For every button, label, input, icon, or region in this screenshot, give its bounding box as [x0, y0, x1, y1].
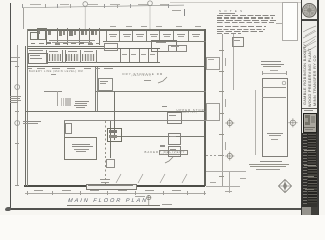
room labels row1: [109, 33, 117, 36]
notes paragraph 1: [217, 15, 276, 24]
survey target 1: [224, 117, 236, 129]
stair dim ticks: [56, 91, 59, 106]
revision box (white): [282, 2, 299, 41]
corridor marks row: [31, 43, 35, 45]
sheet border bottom: [10, 208, 302, 209]
stair boxes along right wall: [167, 112, 182, 124]
left dim ticks: [15, 65, 19, 68]
north arrow compass: [277, 178, 293, 194]
left wall outer: [24, 46, 27, 186]
notes heading: [219, 9, 243, 13]
stair text: [75, 101, 89, 102]
grid bubble A: [80, 0, 92, 32]
top dimension line: [22, 4, 185, 9]
seal: [302, 2, 317, 19]
left margin note: [10, 96, 22, 106]
right dim labels: [225, 58, 226, 66]
title scale note: [162, 204, 172, 205]
left top dim vertical: [22, 8, 25, 29]
right dim vertical 1: [221, 34, 224, 186]
target 1 leader: [206, 122, 224, 125]
bottom dimension line: [25, 192, 206, 195]
title underline: [67, 204, 160, 207]
dry storage label: [123, 72, 164, 76]
cluster corridor wall: [27, 45, 105, 48]
row2 bottom wall: [46, 62, 160, 63]
row2 mid labels: [122, 53, 127, 56]
left grid bubble 2: [12, 118, 23, 129]
detail plan rect: [262, 78, 288, 157]
vertical wall x96: [94, 67, 97, 111]
strip left border: [301, 0, 302, 215]
pencil check delivery: [164, 156, 174, 164]
strip project name rotated text: [303, 44, 307, 105]
mid small boxes under rooms: [104, 43, 118, 51]
vertical wall x110: [110, 121, 111, 158]
seal divider: [302, 19, 317, 21]
strip dark photo section: [302, 133, 317, 208]
vertical x64: [63, 121, 66, 159]
row2 labels: [29, 50, 43, 51]
strip small divider: [302, 107, 317, 110]
attached box right 2: [206, 103, 220, 121]
sheet border left: [10, 3, 11, 208]
sheet corner blob bottom-left: [5, 207, 11, 212]
top right small box: [232, 37, 244, 47]
survey target 2: [224, 150, 236, 162]
left lower note: [23, 121, 41, 122]
toilet cluster row2: [28, 50, 105, 65]
door marks below room B: [106, 159, 115, 168]
door swing ticks bottom: [110, 172, 200, 185]
room A lower left: [64, 137, 97, 160]
row2 left room: [28, 53, 48, 64]
bottom dim extension right: [206, 170, 246, 173]
detail inner line 1: [262, 86, 286, 89]
box above stairs: [98, 78, 113, 91]
grid bubble B: [145, 0, 157, 32]
detail target: [287, 117, 299, 129]
strip bottom section: [302, 207, 317, 215]
main corridor wall: [27, 66, 206, 67]
top dimension labels: [30, 4, 41, 5]
row2 mid partitions: [119, 49, 122, 62]
top dimension ticks: [21, 4, 24, 8]
small fixtures left of room A: [65, 123, 72, 134]
bottom dim labels: [34, 190, 43, 191]
faint wall y120.5: [64, 119, 206, 122]
column lines dashed: [104, 121, 107, 186]
notes paragraph 2: [217, 26, 267, 36]
detail inner text: [267, 133, 283, 134]
right dim vertical 2: [232, 34, 235, 90]
right dim ticks: [219, 49, 224, 52]
vertical wall x114: [114, 91, 115, 140]
strip right border: [317, 0, 318, 215]
left dimension line: [16, 45, 19, 186]
detail left dim: [254, 90, 257, 155]
left small marks upper: [11, 56, 20, 59]
ramp text: [100, 179, 110, 180]
approval scribble section: [302, 22, 317, 54]
detail inner line 2: [262, 96, 286, 99]
mid wall y91 left: [44, 90, 62, 93]
detail below text: [260, 161, 282, 162]
room A text: [72, 144, 90, 145]
row2 fixtures: [49, 54, 62, 60]
mid wall y111: [25, 111, 206, 112]
stair treads: [61, 98, 72, 107]
dock label box on bottom wall: [86, 184, 137, 190]
room partitions row1: [105, 31, 108, 42]
left grid bubble 1: [12, 82, 23, 93]
bakery delivery label: [145, 150, 186, 154]
detail header text: [261, 61, 285, 67]
right wall: [204, 29, 206, 186]
mid wall y91 right: [96, 90, 206, 93]
target 2 leader: [206, 154, 224, 157]
bakery line label: [29, 70, 83, 73]
strip photo frame: [303, 113, 317, 133]
equipment box B: [107, 128, 123, 143]
leader line to revision box: [276, 22, 282, 25]
upper storage label: [177, 108, 205, 112]
detail target leader: [287, 122, 293, 125]
detail dim line top: [262, 72, 286, 75]
wall y135.7: [110, 136, 204, 137]
detail corner circle: [280, 79, 289, 88]
bottom wall: [24, 185, 205, 187]
title flag: [144, 194, 154, 206]
attached box right 1: [206, 57, 220, 70]
row1 rooms bottom line: [103, 40, 206, 43]
pencil check dry storage: [157, 76, 169, 85]
sheet border top faint: [170, 1, 301, 4]
title MAIN FLOOR PLAN: [68, 198, 149, 204]
toilet cluster row1: [28, 27, 105, 47]
title block strip background: [302, 0, 317, 215]
wall top labels: [110, 26, 116, 27]
dim labels 10-0 row: [28, 68, 32, 69]
left wall inner: [26, 29, 29, 186]
PLAN: top wall: [27, 28, 206, 31]
